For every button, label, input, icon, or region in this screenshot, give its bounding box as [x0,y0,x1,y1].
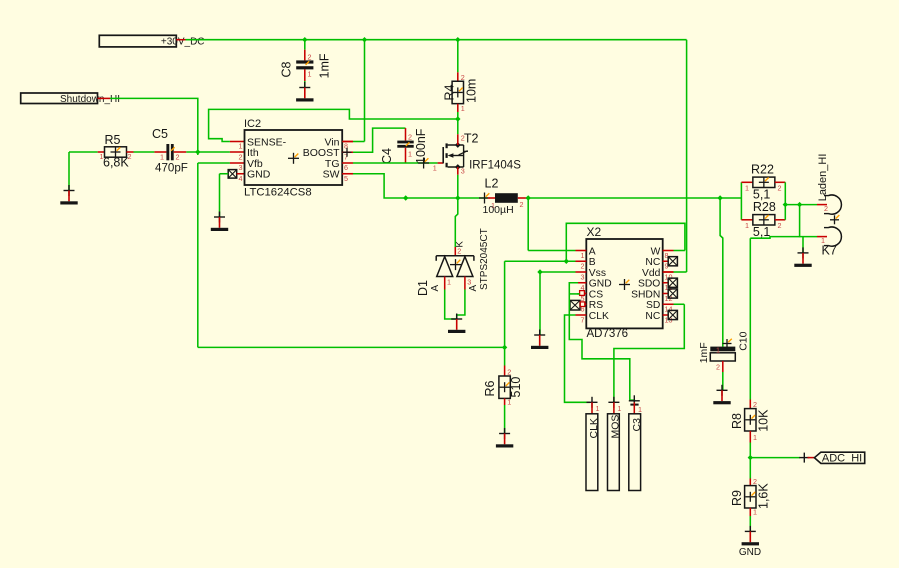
svg-text:SW: SW [323,169,340,181]
svg-text:1: 1 [745,221,749,230]
svg-text:A: A [468,285,479,292]
svg-text:R28: R28 [753,200,776,214]
svg-text:1: 1 [745,184,749,193]
svg-text:2: 2 [581,262,585,271]
svg-text:IRF1404S: IRF1404S [469,159,521,171]
svg-text:2: 2 [753,400,757,409]
svg-text:R6: R6 [483,380,497,396]
svg-text:2: 2 [507,368,511,377]
svg-text:SHDN: SHDN [631,289,660,300]
svg-text:1mF: 1mF [698,342,710,363]
svg-text:1: 1 [617,404,621,413]
svg-text:470pF: 470pF [155,162,188,175]
svg-text:1: 1 [447,278,451,287]
svg-text:C4: C4 [380,148,394,164]
svg-text:1: 1 [160,153,164,162]
svg-text:SDO: SDO [638,279,660,290]
svg-text:4: 4 [239,174,243,183]
svg-text:NC: NC [645,257,660,268]
svg-text:100nF: 100nF [414,128,428,164]
svg-text:NC: NC [645,311,660,322]
svg-text:STPS2045CT: STPS2045CT [479,228,490,290]
svg-text:CLK: CLK [589,311,609,322]
svg-text:1: 1 [596,404,600,413]
svg-text:2: 2 [239,152,243,161]
svg-text:K7: K7 [822,244,837,258]
svg-text:2: 2 [824,204,828,213]
svg-text:C3: C3 [631,418,643,432]
svg-text:X2: X2 [587,225,602,239]
svg-text:3: 3 [461,167,465,176]
svg-text:+30V_DC: +30V_DC [161,36,205,47]
svg-text:1: 1 [433,164,437,173]
svg-text:1: 1 [581,251,585,260]
svg-text:R8: R8 [730,413,744,429]
svg-text:1: 1 [461,104,465,113]
svg-text:ADC_HI: ADC_HI [822,452,862,464]
svg-text:R22: R22 [751,162,774,176]
svg-text:5,1: 5,1 [753,225,770,239]
svg-text:10m: 10m [465,79,479,103]
svg-text:Laden_HI: Laden_HI [817,154,829,202]
svg-text:IC2: IC2 [244,118,261,130]
svg-text:1mF: 1mF [318,53,332,78]
svg-text:GND: GND [739,547,761,558]
svg-text:MOS: MOS [610,415,622,439]
svg-text:2: 2 [716,363,720,372]
svg-text:2: 2 [408,133,412,142]
svg-text:R4: R4 [443,84,457,100]
svg-text:100µH: 100µH [483,204,514,216]
svg-text:SD: SD [646,300,660,311]
svg-text:Shutdown_HI: Shutdown_HI [60,94,120,105]
svg-text:6: 6 [344,163,348,172]
svg-text:A: A [430,285,441,292]
svg-text:2: 2 [308,52,312,61]
svg-text:1: 1 [638,405,642,414]
svg-text:R9: R9 [730,490,744,506]
svg-text:C5: C5 [152,127,168,141]
svg-text:1: 1 [239,142,243,151]
svg-text:1: 1 [408,150,412,159]
svg-text:2: 2 [176,153,180,162]
svg-text:510: 510 [509,377,523,398]
svg-text:10K: 10K [756,409,770,432]
svg-text:C10: C10 [737,331,749,350]
svg-text:2: 2 [778,221,782,230]
svg-text:6,8K: 6,8K [103,156,129,170]
svg-text:A: A [589,246,596,257]
svg-text:1: 1 [753,433,757,442]
svg-text:CLK: CLK [588,418,600,438]
svg-text:5: 5 [344,174,348,183]
svg-text:2: 2 [520,200,524,209]
svg-text:1: 1 [507,397,511,406]
svg-text:GND: GND [589,279,612,290]
svg-text:AD7376: AD7376 [587,328,629,340]
svg-text:T2: T2 [464,132,479,146]
svg-text:LTC1624CS8: LTC1624CS8 [244,187,312,199]
svg-text:B: B [589,257,596,268]
svg-text:L2: L2 [485,176,499,190]
svg-text:D1: D1 [416,280,430,296]
svg-text:3: 3 [581,272,585,281]
svg-text:7: 7 [581,315,585,324]
svg-text:W: W [651,246,661,257]
svg-text:2: 2 [778,184,782,193]
svg-text:Vss: Vss [589,268,606,279]
svg-text:1: 1 [716,346,720,355]
svg-text:RS: RS [589,300,603,311]
svg-text:Vdd: Vdd [642,268,661,279]
svg-text:1,6K: 1,6K [756,483,770,509]
svg-text:1: 1 [308,69,312,78]
svg-text:K: K [454,241,465,248]
svg-text:3: 3 [239,163,243,172]
svg-text:C8: C8 [280,61,294,77]
svg-text:GND: GND [247,169,271,181]
svg-text:R5: R5 [105,133,121,147]
svg-text:CS: CS [589,289,603,300]
